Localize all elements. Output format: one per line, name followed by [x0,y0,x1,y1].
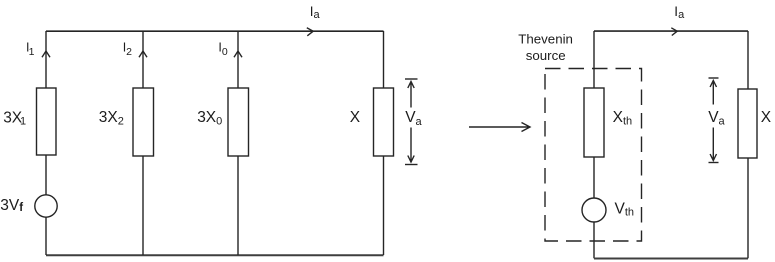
resistor X right circuit [738,89,757,158]
resistor Xth [584,88,604,157]
wire bottom rail left circuit [46,254,384,256]
svg-text:Vth: Vth [615,200,635,218]
current arrow I0 [234,51,242,57]
annotation Va left up arrow [408,82,414,108]
wire thevenin branch middle [593,157,595,198]
wire branch X upper [383,31,385,88]
wire right branch upper [747,31,749,89]
svg-text:Va: Va [405,109,422,128]
wire branch1 upper [45,31,47,88]
svg-text:Ia: Ia [674,4,685,21]
current arrow Ia left [307,28,313,36]
resistor 3X0 [228,88,249,156]
wire branch3 lower [237,156,239,255]
annotation Va left down arrow [408,128,414,163]
source 3Vf [35,195,57,217]
current arrow I2 [139,51,147,57]
svg-text:3X2: 3X2 [99,109,124,127]
svg-text:3X1: 3X1 [3,109,26,127]
svg-text:Va: Va [708,109,725,128]
wire bottom rail right circuit [594,258,748,260]
wire branch2 lower [142,156,144,255]
svg-text:X: X [761,109,772,126]
wire branch2 upper [142,31,144,88]
svg-text:source: source [526,48,566,63]
resistor 3X1 [37,88,57,155]
svg-text:I2: I2 [123,40,132,58]
transform arrow [469,123,530,132]
resistor 3X2 [133,88,154,156]
wire branch1 middle [45,155,47,195]
svg-text:Xth: Xth [613,109,633,127]
svg-text:3X0: 3X0 [197,109,222,127]
wire branch X lower [383,156,385,255]
wire top rail left circuit [46,30,384,32]
svg-text:3Vf: 3Vf [0,197,23,214]
resistor X left circuit [374,88,394,156]
annotation Va right top bar [709,77,719,79]
annotation Va right down arrow [710,128,716,161]
thevenin dashed box [545,69,642,242]
svg-text:I1: I1 [26,40,35,58]
svg-text:X: X [350,109,361,126]
source Vth [582,198,606,222]
annotation Va left top bar [405,78,418,80]
svg-text:Thevenin: Thevenin [518,32,573,47]
annotation Va right bottom bar [709,162,719,164]
svg-text:Ia: Ia [310,4,321,21]
current arrow Ia right [671,28,677,36]
wire top rail right circuit [594,30,748,32]
wire thevenin branch upper [593,31,595,88]
svg-text:I0: I0 [218,40,227,58]
wire thevenin branch lower [593,222,595,258]
wire branch1 lower [45,217,47,255]
current arrow I1 [42,51,50,57]
annotation Va left bottom bar [405,164,418,166]
wire right branch lower [747,158,749,258]
wire branch3 upper [237,31,239,88]
annotation Va right up arrow [710,81,716,105]
